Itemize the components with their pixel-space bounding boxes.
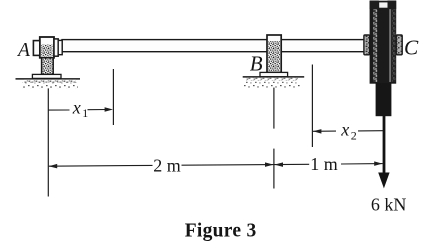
2 m dimension line left segment: [49, 164, 153, 167]
pulley C top right cap: [388, 1, 397, 10]
svg-text:x: x: [72, 98, 81, 118]
pulley C left hub: [364, 35, 370, 55]
x2 tick line: [311, 65, 313, 148]
ground line at B: [243, 76, 305, 78]
1 m dimension line left segment: [274, 163, 309, 165]
extension line at A support: [47, 88, 49, 196]
extension line below B upper segment: [273, 88, 275, 129]
pulley C left flange speckle strip: [373, 2, 377, 82]
ground shading at B dense band: [246, 78, 298, 81]
x1 arrowhead: [105, 107, 113, 112]
svg-text:6 kN: 6 kN: [371, 194, 407, 214]
ground line at A: [16, 78, 81, 80]
bearing A collar step 2: [58, 40, 62, 54]
force arrowhead 6 kN: [378, 173, 389, 189]
1 m left arrowhead: [275, 162, 284, 167]
pulley C inner highlight streak: [389, 2, 391, 82]
ground shading at A dense band: [24, 80, 76, 83]
2 m left arrowhead: [49, 164, 58, 169]
belt force line: [383, 116, 386, 173]
ground shading at A: [22, 83, 78, 89]
2 m right arrowhead: [265, 162, 274, 167]
svg-text:1: 1: [82, 106, 88, 120]
svg-text:2 m: 2 m: [153, 156, 181, 176]
base plate of B: [260, 72, 288, 76]
ground shading at B: [244, 81, 300, 88]
pulley C top left cap: [370, 1, 379, 10]
bearing A left cap: [33, 41, 39, 56]
bearing B block speckle: [268, 41, 280, 71]
x1 dimension line left part: [48, 109, 69, 111]
svg-text:A: A: [16, 40, 30, 61]
extension line below B lower segment: [273, 149, 275, 189]
svg-text:C: C: [404, 36, 419, 60]
belt wrap below pulley: [376, 83, 392, 116]
svg-text:1 m: 1 m: [310, 154, 338, 174]
x2 dimension line right part: [358, 130, 383, 132]
bearing A collar step 1: [54, 39, 58, 56]
1 m right arrowhead: [374, 161, 382, 166]
pulley C top groove gap: [379, 2, 387, 7]
pedestal of A: [42, 58, 54, 75]
bearing A housing: [40, 37, 54, 58]
svg-text:x: x: [340, 119, 349, 139]
bearing A housing speckle: [41, 45, 52, 57]
x1 dimension line right part: [88, 109, 109, 111]
svg-text:2: 2: [351, 128, 357, 142]
1 m dimension line right segment: [341, 163, 383, 165]
x2 dimension line left part: [313, 130, 336, 132]
pulley C right hub: [396, 35, 402, 55]
pulley C body: [370, 1, 397, 84]
pulley C right flange fleck overlay: [392, 3, 396, 82]
x1 tick line: [112, 69, 114, 125]
base plate of A: [32, 74, 61, 78]
shaft: [62, 40, 366, 52]
x2 left arrowhead: [313, 129, 321, 134]
svg-text:Figure 3: Figure 3: [185, 221, 257, 242]
bearing B block: [267, 35, 281, 72]
svg-text:B: B: [250, 51, 263, 75]
2 m dimension line right segment: [182, 164, 274, 167]
